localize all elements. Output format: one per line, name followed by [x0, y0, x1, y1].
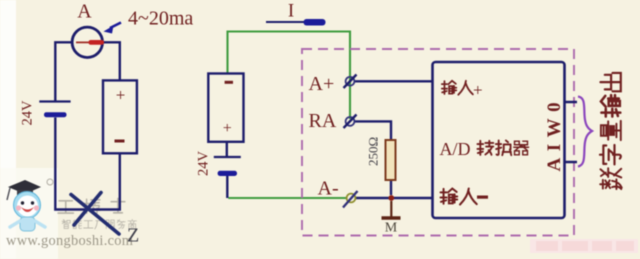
svg-text:RA: RA: [309, 110, 337, 132]
svg-text:I: I: [288, 1, 294, 22]
svg-text:+: +: [116, 86, 126, 105]
svg-text:M: M: [385, 221, 398, 236]
svg-text:A: A: [77, 1, 92, 23]
svg-text:www.gongboshi.com: www.gongboshi.com: [6, 233, 133, 249]
svg-text:250Ω: 250Ω: [366, 137, 381, 166]
svg-text:24V: 24V: [196, 151, 212, 177]
svg-text:+: +: [473, 81, 483, 100]
svg-text:A/D: A/D: [440, 139, 471, 159]
svg-text:24V: 24V: [20, 100, 36, 126]
svg-text:A+: A+: [309, 73, 335, 95]
svg-text:4~20ma: 4~20ma: [128, 8, 193, 30]
svg-text:A-: A-: [318, 178, 339, 200]
svg-text:+: +: [223, 120, 232, 137]
svg-text:Z: Z: [127, 225, 139, 247]
svg-text:AIW0: AIW0: [544, 96, 565, 172]
